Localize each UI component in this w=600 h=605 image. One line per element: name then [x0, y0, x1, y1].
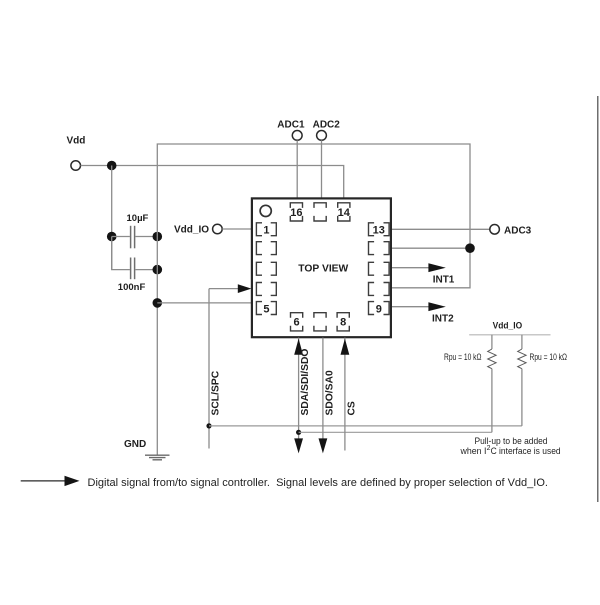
svg-text:CS: CS	[346, 401, 357, 415]
pad 4	[256, 283, 276, 296]
svg-text:Vdd: Vdd	[67, 136, 86, 147]
arrowhead INT2	[428, 302, 445, 311]
junction dot 10uF right	[153, 232, 163, 242]
junction dot Vdd/cap rail	[107, 161, 117, 171]
pad 1	[256, 223, 276, 236]
wire Vdd horizontal to pin 14	[81, 166, 344, 200]
junction dot GND rail pin5	[153, 298, 163, 308]
wire CS vertical	[344, 338, 346, 451]
svg-text:16: 16	[290, 207, 302, 219]
svg-text:Vdd_IO: Vdd_IO	[174, 225, 209, 236]
pad 8	[337, 313, 349, 331]
junction dot SDA bus	[296, 430, 301, 435]
junction dot SCL bus	[206, 423, 211, 428]
pad 5	[256, 302, 276, 315]
wire cap rail down to 100nF	[112, 237, 130, 270]
capacitor C1 10uF	[112, 236, 130, 238]
svg-text:5: 5	[263, 303, 269, 315]
svg-text:10µF: 10µF	[127, 213, 149, 224]
svg-text:6: 6	[294, 317, 300, 329]
wire SCL/SPC into pin 4	[209, 288, 239, 290]
junction dot right rail	[465, 243, 475, 253]
svg-text:Vdd_IO: Vdd_IO	[493, 321, 523, 331]
arrowhead SDA up	[294, 339, 303, 355]
resistor Rpu2	[521, 335, 523, 349]
svg-text:SDO/SA0: SDO/SA0	[324, 370, 335, 415]
resistor Rpu1	[491, 335, 493, 349]
arrowhead SDA down	[294, 438, 303, 453]
svg-text:9: 9	[376, 303, 382, 315]
wire bus A SCL pull-up	[209, 425, 522, 427]
pad 14	[338, 203, 350, 221]
wire SCL/SPC vertical	[208, 289, 210, 449]
chip U1 outline	[252, 198, 391, 337]
arrowhead SCL into pin 4	[238, 284, 252, 293]
arrowhead SDO down	[319, 438, 328, 453]
pad 9	[369, 302, 390, 315]
svg-text:SDA/SDI/SDO: SDA/SDI/SDO	[300, 349, 311, 416]
pad 13	[369, 223, 390, 236]
pad 15	[314, 203, 326, 221]
wire pin 13 to ADC3	[392, 228, 490, 230]
svg-text:8: 8	[340, 317, 346, 329]
svg-text:Digital signal from/to signal: Digital signal from/to signal controller…	[88, 477, 549, 489]
svg-text:SCL/SPC: SCL/SPC	[211, 370, 222, 415]
svg-text:ADC1: ADC1	[277, 120, 305, 131]
frame border right	[597, 96, 599, 502]
wire INT2	[392, 306, 429, 308]
terminal ADC2	[317, 131, 327, 141]
svg-text:GND: GND	[124, 439, 146, 450]
svg-text:Pull-up to be added: Pull-up to be added	[475, 436, 548, 446]
pad 2	[256, 242, 276, 255]
legend arrowhead	[65, 476, 80, 486]
svg-text:INT2: INT2	[432, 314, 454, 325]
svg-text:Rpu = 10 kΩ: Rpu = 10 kΩ	[530, 352, 568, 362]
pad 11	[369, 262, 390, 275]
terminal ADC1	[292, 131, 302, 141]
terminal Vdd_IO	[213, 224, 223, 234]
wire pin 12 to GND rail	[392, 247, 470, 249]
arrowhead CS up	[341, 339, 350, 355]
svg-text:14: 14	[338, 207, 351, 219]
wire SDO/SA0 vertical	[322, 338, 324, 440]
wire ADC2 to pin 15	[321, 140, 323, 199]
wire ADC1 to pin 16	[296, 140, 298, 199]
svg-text:INT1: INT1	[433, 274, 455, 285]
svg-text:Rpu = 10 kΩ: Rpu = 10 kΩ	[444, 352, 482, 362]
svg-text:13: 13	[373, 225, 385, 237]
pad 6	[291, 313, 303, 331]
pin 1 marker circle	[260, 205, 271, 216]
wire Vdd_IO pull-up rail	[469, 334, 550, 336]
wire to pin 5	[157, 302, 252, 304]
pad 12	[369, 242, 390, 255]
wire Vdd_IO to pin 1	[222, 228, 252, 230]
wire bus B SDA pull-up	[299, 431, 492, 433]
capacitor C2 100nF	[130, 258, 132, 280]
svg-text:100nF: 100nF	[118, 282, 146, 293]
junction dot 10uF left	[107, 232, 117, 242]
svg-text:TOP VIEW: TOP VIEW	[298, 263, 348, 274]
svg-text:ADC2: ADC2	[313, 120, 341, 131]
legend arrow wire	[21, 480, 65, 482]
pad 7	[314, 313, 326, 331]
wire INT1	[392, 267, 429, 269]
ground	[145, 454, 170, 456]
svg-text:when I: when I	[460, 446, 487, 456]
svg-text:1: 1	[263, 225, 269, 237]
pad 10	[369, 283, 390, 296]
wire Vdd down to caps	[111, 166, 113, 270]
terminal Vdd	[71, 161, 81, 171]
terminal ADC3	[490, 225, 500, 235]
wire SDA/SDI/SDO vertical	[298, 338, 300, 440]
svg-text:C interface is used: C interface is used	[491, 446, 561, 456]
wire GND rail top to right rail	[157, 144, 470, 455]
arrowhead INT1	[428, 263, 445, 272]
pad 3	[256, 262, 276, 275]
pad 16	[290, 203, 302, 221]
junction dot 100nF right	[153, 265, 163, 275]
svg-text:ADC3: ADC3	[504, 226, 532, 237]
